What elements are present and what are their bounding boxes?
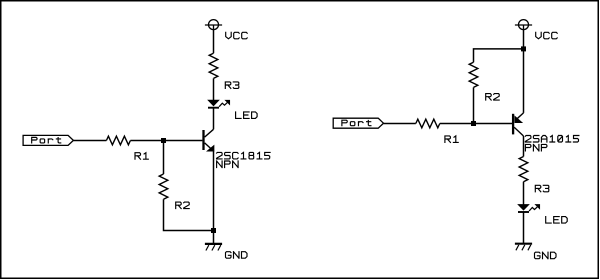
label R3 left	[225, 82, 239, 89]
wire VCC to emitter right	[523, 29, 525, 113]
label VCC right	[536, 32, 558, 39]
label 2SC1815 left	[217, 152, 271, 159]
label PNP right	[525, 144, 547, 151]
ground symbol left	[205, 244, 222, 251]
label LED left	[236, 112, 258, 119]
wire R3 to LED left	[213, 78, 215, 100]
wire R1 to base right	[440, 123, 512, 125]
wire Port to R1 right	[384, 123, 416, 125]
wire R3 to LED right	[523, 182, 525, 205]
power symbol VCC right	[515, 20, 532, 30]
label 2SA1015 right	[525, 136, 579, 143]
power symbol VCC left	[205, 20, 222, 30]
port flag Port right	[333, 118, 383, 128]
wire collector to R3 right	[523, 136, 525, 157]
wire emitter to ground left	[213, 151, 215, 244]
resistor R2 right	[469, 62, 478, 87]
transistor Q2 2SA1015 PNP right	[513, 113, 523, 136]
LED right	[518, 205, 540, 213]
resistor R3 left	[209, 53, 218, 78]
label VCC left	[226, 32, 248, 39]
wire R2 to bottom rail left	[164, 199, 214, 230]
wire rail to R2 right	[474, 49, 524, 62]
transistor Q1 2SC1815 NPN left	[204, 129, 215, 151]
label GND right	[535, 252, 557, 259]
resistor R1 right	[416, 119, 440, 128]
wire junction to R2 left	[163, 141, 165, 175]
resistor R1 left	[106, 136, 130, 145]
label R1 left	[135, 153, 148, 160]
junction node VCC rail right	[521, 46, 526, 51]
label Port right	[342, 120, 371, 126]
label R2 left	[176, 202, 190, 209]
label LED right	[546, 217, 568, 224]
wire R1 to base left	[130, 140, 202, 142]
port flag Port left	[23, 135, 73, 145]
ground symbol right	[515, 244, 532, 251]
label R2 right	[486, 94, 500, 101]
label GND left	[226, 252, 248, 259]
wire LED to ground right	[523, 212, 525, 243]
label R3 right	[535, 185, 549, 192]
wire LED to collector left	[213, 108, 215, 130]
wire VCC to R3 left	[213, 29, 215, 53]
LED left	[208, 100, 230, 108]
resistor R3 right	[519, 157, 528, 182]
label NPN left	[217, 161, 239, 168]
wire R2 to base junction right	[473, 87, 475, 123]
wire Port to R1 left	[73, 140, 106, 142]
label Port left	[32, 137, 61, 143]
junction node emitter rail left	[211, 228, 216, 233]
resistor R2 left	[159, 174, 168, 199]
junction node base left	[161, 138, 166, 143]
junction node base right	[471, 121, 476, 126]
label R1 right	[445, 136, 458, 143]
